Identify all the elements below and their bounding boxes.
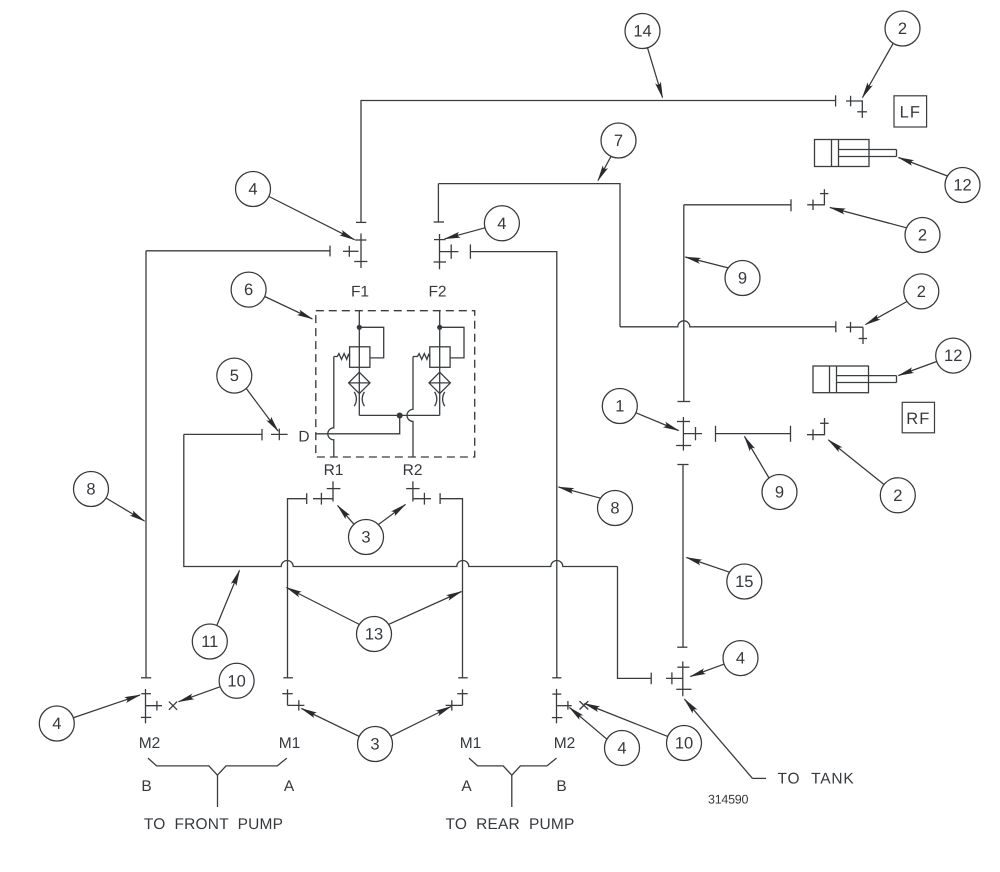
tick xyxy=(261,429,263,440)
valve2 orifice xyxy=(435,392,437,406)
wire valve1 left (to R1) with jump xyxy=(328,357,334,458)
tee fitting 1 xyxy=(676,417,702,451)
svg-text:1: 1 xyxy=(615,398,624,416)
port rear M2 xyxy=(552,689,572,724)
callout 3 bottom xyxy=(302,707,452,762)
callout 11 xyxy=(192,571,239,660)
callout 8 right xyxy=(559,487,633,526)
wire 9 vertical xyxy=(683,205,685,402)
port LF-upper xyxy=(857,100,867,118)
svg-text:LF: LF xyxy=(900,104,921,122)
callout 7 xyxy=(598,123,636,181)
wire valve2 pilot branch xyxy=(440,327,464,358)
wire hose D xyxy=(184,433,262,435)
svg-text:3: 3 xyxy=(361,529,370,547)
callout 4 F2 xyxy=(445,206,520,241)
svg-text:R2: R2 xyxy=(403,462,423,479)
svg-text:2: 2 xyxy=(893,487,902,505)
svg-text:M2: M2 xyxy=(139,735,161,752)
callout 4 bottom left xyxy=(39,695,140,741)
wire hose7 from F2 xyxy=(438,184,620,327)
callout 9 upper xyxy=(685,257,760,296)
callout 9 lower xyxy=(745,437,798,510)
valve1 body box xyxy=(350,347,370,368)
tick top xyxy=(677,464,688,466)
fitting 2 LF-lower cross xyxy=(807,200,824,210)
callout 1 xyxy=(602,389,678,431)
svg-text:14: 14 xyxy=(633,23,651,41)
node valve1 xyxy=(357,325,362,330)
hose end tick xyxy=(790,199,792,211)
hose14 end tick bottom xyxy=(356,221,366,223)
wire hose to LF lower port xyxy=(684,204,791,206)
wire D inside block xyxy=(316,416,400,434)
hose F2 tick xyxy=(469,244,471,258)
svg-text:B: B xyxy=(141,778,151,795)
hose end tick xyxy=(835,321,837,332)
wire hose RF upper line with jump xyxy=(620,321,836,327)
tank tee fitting xyxy=(666,661,692,696)
hose R2 tick xyxy=(439,493,441,504)
label box RF xyxy=(902,402,934,433)
callout 10 bottom right xyxy=(585,704,702,761)
tick xyxy=(650,673,652,685)
fitting 2 RF-upper cross xyxy=(846,322,863,332)
svg-text:15: 15 xyxy=(735,573,753,591)
wire hose R2 xyxy=(440,499,462,678)
svg-text:10: 10 xyxy=(675,735,693,753)
port RF-lower xyxy=(820,418,829,435)
valve block 6 dashed border xyxy=(316,311,475,457)
fitting R1 cross xyxy=(313,493,333,505)
brake cylinder LF xyxy=(815,140,897,167)
valve1 main line F1 xyxy=(358,311,360,416)
svg-text:2: 2 xyxy=(917,283,926,301)
node valve2 xyxy=(437,325,442,330)
svg-text:2: 2 xyxy=(898,20,907,38)
svg-text:R1: R1 xyxy=(324,462,344,479)
callout 6 xyxy=(231,272,312,319)
valve2 body box xyxy=(430,347,450,368)
svg-text:4: 4 xyxy=(248,181,257,199)
svg-text:8: 8 xyxy=(610,500,619,518)
wire F2 upper stub xyxy=(437,184,439,222)
svg-text:TO REAR PUMP: TO REAR PUMP xyxy=(445,816,574,833)
plug X rear M2 xyxy=(580,701,589,709)
plug X front M2 xyxy=(169,702,177,710)
svg-text:9: 9 xyxy=(738,270,747,288)
bracket rear pump xyxy=(469,758,557,775)
wire valve2 left (to R2) with jump xyxy=(407,357,413,458)
svg-text:TO FRONT PUMP: TO FRONT PUMP xyxy=(144,816,283,833)
svg-text:6: 6 xyxy=(244,281,253,299)
svg-text:M1: M1 xyxy=(279,735,301,752)
svg-text:4: 4 xyxy=(617,740,626,758)
fitting 2 LF-upper cross xyxy=(846,96,862,107)
callout 8 left xyxy=(74,472,145,522)
callout 2 LF upper xyxy=(863,11,921,98)
tick bottom xyxy=(677,646,687,648)
callout 13 xyxy=(287,588,462,652)
tick F2 stub xyxy=(434,221,444,223)
wire hose 9 horizontal xyxy=(716,433,791,435)
valve2 diamond cross xyxy=(429,382,450,384)
svg-text:11: 11 xyxy=(201,633,218,651)
svg-text:D: D xyxy=(298,429,309,446)
stem front pump xyxy=(217,775,219,807)
stem rear pump xyxy=(511,775,513,807)
svg-text:12: 12 xyxy=(953,177,971,195)
callout 4 bottom right xyxy=(570,708,640,766)
wire hose F1 to left xyxy=(146,250,330,252)
fitting 2 RF-lower cross xyxy=(807,429,825,440)
callout 10 left xyxy=(179,663,255,701)
callout 3 mid xyxy=(338,505,406,555)
port F1 xyxy=(354,234,367,269)
wire 9 end tick xyxy=(678,401,691,403)
valve1 orifice xyxy=(354,392,356,406)
svg-text:M2: M2 xyxy=(554,735,576,752)
svg-text:F2: F2 xyxy=(428,284,446,301)
valve2 check diamond xyxy=(429,372,450,393)
tick right xyxy=(790,426,792,442)
valve1 diamond cross xyxy=(349,382,370,384)
svg-text:12: 12 xyxy=(944,347,962,365)
svg-text:314590: 314590 xyxy=(708,793,749,807)
elbow rear M1 xyxy=(446,689,468,710)
hose R1 tick xyxy=(306,493,308,504)
callout 2 LF lower xyxy=(830,208,940,253)
port front M2 xyxy=(141,689,162,723)
callout 2 RF upper xyxy=(866,274,939,325)
fitting D cross xyxy=(271,429,288,441)
wire hose F2 to right col xyxy=(470,252,556,678)
port F2 xyxy=(434,234,446,269)
callout 12 LF xyxy=(899,158,981,203)
svg-text:13: 13 xyxy=(365,626,383,644)
fitting 4 F1 cross xyxy=(343,246,359,257)
node center junction xyxy=(397,413,403,419)
tick xyxy=(329,246,331,257)
port R1 xyxy=(327,481,341,501)
svg-text:A: A xyxy=(461,778,472,795)
tick left xyxy=(715,426,717,442)
svg-text:M1: M1 xyxy=(460,735,482,752)
svg-text:7: 7 xyxy=(614,132,623,150)
tick xyxy=(141,677,151,679)
valve1 check diamond xyxy=(349,372,370,393)
label box LF xyxy=(894,96,927,127)
valve2 main line F2 xyxy=(439,311,441,416)
svg-text:4: 4 xyxy=(736,650,745,668)
callout 5 xyxy=(217,358,278,431)
hose14 end tick right xyxy=(835,95,837,106)
tick xyxy=(458,677,468,679)
bracket front pump xyxy=(148,758,287,775)
wire 15 vertical xyxy=(682,465,684,648)
port R2 xyxy=(406,481,419,501)
wire valve2 bottom xyxy=(400,414,440,416)
svg-text:A: A xyxy=(284,778,295,795)
leader TO TANK xyxy=(685,699,767,778)
elbow front M1 xyxy=(282,689,304,710)
svg-text:B: B xyxy=(556,778,566,795)
wire hose14 top line xyxy=(361,101,836,223)
callout 12 RF xyxy=(899,338,971,375)
port LF-lower xyxy=(820,189,828,205)
svg-text:8: 8 xyxy=(86,481,95,499)
svg-text:TO TANK: TO TANK xyxy=(778,771,855,788)
callout 15 xyxy=(687,558,762,600)
fitting R2 cross xyxy=(413,493,431,505)
wire valve1 bottom xyxy=(359,414,399,416)
svg-text:4: 4 xyxy=(52,715,61,733)
fitting 4 F2 cross xyxy=(440,244,459,258)
wire bus to tank tee xyxy=(618,567,652,679)
tick xyxy=(283,677,293,679)
svg-text:3: 3 xyxy=(370,736,379,754)
wire left column 8 xyxy=(145,251,147,678)
callout 2 RF lower xyxy=(829,440,916,513)
valve2 spring xyxy=(413,354,430,360)
port RF-upper xyxy=(859,327,867,344)
svg-text:10: 10 xyxy=(227,672,245,690)
wire hose R1 xyxy=(288,499,307,678)
callout 4 F1 xyxy=(236,172,355,240)
callout 14 xyxy=(625,14,663,98)
brake cylinder RF xyxy=(813,366,897,393)
svg-text:5: 5 xyxy=(230,367,239,385)
valve1 spring xyxy=(334,354,350,360)
wire bus 11 with jumps xyxy=(184,434,618,566)
wire valve1 pilot branch xyxy=(359,327,383,358)
svg-text:RF: RF xyxy=(906,410,930,428)
svg-text:F1: F1 xyxy=(351,284,369,301)
svg-text:4: 4 xyxy=(497,215,506,233)
callout 4 tank xyxy=(690,641,758,677)
svg-text:9: 9 xyxy=(775,484,784,502)
tick xyxy=(552,677,561,679)
svg-text:2: 2 xyxy=(918,227,927,245)
